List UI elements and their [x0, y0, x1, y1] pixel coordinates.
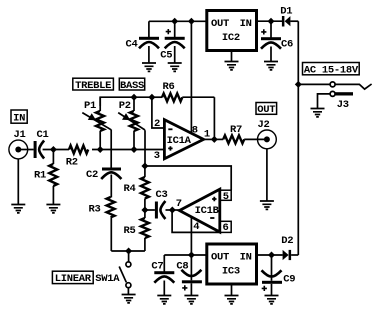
- svg-text:C2: C2: [86, 169, 98, 181]
- wire V- rail left: [164, 254, 207, 256]
- wire switch row: [111, 250, 145, 252]
- svg-text:6: 6: [222, 222, 228, 234]
- junction dot R6 left: [148, 94, 155, 101]
- ground (C8): [184, 296, 198, 304]
- wire V- rail right: [257, 254, 283, 256]
- svg-text:R5: R5: [123, 225, 135, 237]
- ground (C7): [157, 296, 171, 304]
- svg-text:BASS: BASS: [120, 80, 144, 92]
- diode D1: [280, 5, 292, 26]
- wire pin 6 feedback to pin 7: [172, 210, 220, 232]
- label TREBLE: [73, 78, 114, 92]
- svg-text:C6: C6: [281, 39, 293, 51]
- capacitor C3: [145, 189, 168, 219]
- resistor R7: [214, 124, 266, 143]
- junction dot IC1A output: [211, 136, 218, 143]
- connector J3: [298, 82, 371, 111]
- pot P1: [82, 97, 134, 149]
- svg-text:J3: J3: [337, 99, 349, 111]
- svg-text:C1: C1: [36, 129, 48, 141]
- ground (C5): [168, 63, 182, 71]
- svg-text:C9: C9: [283, 273, 295, 285]
- svg-text:R7: R7: [230, 124, 242, 136]
- regulator IC2: [207, 11, 257, 51]
- svg-text:R2: R2: [66, 157, 78, 169]
- capacitor C6: [261, 21, 293, 61]
- svg-text:OUT: OUT: [211, 251, 229, 263]
- ground (C6): [264, 62, 278, 70]
- svg-text:8: 8: [192, 125, 198, 137]
- resistor R2: [66, 146, 88, 169]
- svg-text:OUT: OUT: [257, 104, 275, 116]
- junction dot C9 top: [268, 252, 275, 259]
- svg-text:TREBLE: TREBLE: [75, 80, 111, 92]
- junction dot AC/J3: [295, 81, 302, 88]
- op-amp IC1A: [154, 118, 215, 162]
- op-amp IC1B: [176, 189, 220, 233]
- resistor R5: [123, 210, 148, 251]
- resistor R6: [152, 81, 215, 101]
- svg-text:LINEAR: LINEAR: [55, 273, 92, 285]
- svg-text:R4: R4: [123, 183, 135, 195]
- junction dot C5 top: [171, 18, 178, 25]
- svg-text:C3: C3: [155, 189, 167, 201]
- capacitor C9: [262, 255, 296, 296]
- resistor R1: [34, 150, 57, 205]
- junction dot P2 top: [131, 94, 138, 101]
- ground (IC3): [225, 284, 239, 304]
- ground (SW1A): [122, 295, 136, 303]
- capacitor C8: [176, 255, 202, 296]
- wire J1 to C1: [20, 149, 34, 151]
- ground (C4): [142, 63, 156, 71]
- wire C1 to R2: [43, 149, 69, 151]
- svg-text:IN: IN: [13, 112, 25, 124]
- junction dot P2 bottom: [131, 146, 138, 153]
- label IN: [11, 110, 27, 124]
- svg-text:C8: C8: [176, 261, 188, 273]
- resistor R3: [88, 197, 114, 251]
- resistor R4: [123, 166, 148, 210]
- svg-text:IC2: IC2: [222, 32, 240, 44]
- wire P1 wiper to C2: [110, 130, 112, 168]
- capacitor C2: [86, 168, 121, 198]
- label AC 15-18V: [303, 63, 360, 77]
- junction dot C6 top: [268, 18, 275, 25]
- svg-text:P1: P1: [84, 100, 96, 112]
- label LINEAR: [52, 271, 93, 285]
- svg-text:2: 2: [154, 118, 160, 130]
- wire P2 wiper to node A: [144, 130, 146, 166]
- wire node A to IC1B pin 5: [145, 166, 231, 190]
- wire to IC1A pin 2: [152, 97, 164, 128]
- ground (R1): [46, 205, 60, 213]
- diode D2: [281, 235, 293, 260]
- label OUT: [256, 103, 277, 117]
- svg-text:R3: R3: [88, 203, 100, 215]
- svg-text:IN: IN: [240, 18, 252, 30]
- capacitor C4: [125, 21, 159, 63]
- capacitor C1: [34, 129, 49, 158]
- svg-text:D1: D1: [280, 5, 292, 17]
- wire IC1B pin 4 to V-: [190, 217, 192, 255]
- junction dot R1 top: [50, 146, 57, 153]
- wire AC rail: [297, 21, 299, 255]
- wire D1 to AC rail: [290, 20, 298, 22]
- junction dot IC1B pin 7: [169, 207, 176, 214]
- ground (C9): [265, 296, 279, 304]
- wire input row to IC1A pin 3: [92, 149, 164, 151]
- junction dot node B: [141, 207, 148, 214]
- svg-text:J1: J1: [13, 129, 25, 141]
- pin 5 box IC1B: [220, 190, 231, 203]
- svg-text:P2: P2: [119, 100, 131, 112]
- svg-text:C5: C5: [160, 50, 172, 62]
- svg-text:R1: R1: [34, 169, 46, 181]
- ground (IC2): [225, 51, 239, 70]
- capacitor C5: [160, 21, 185, 63]
- svg-text:IC1A: IC1A: [167, 135, 192, 147]
- svg-text:IC1B: IC1B: [195, 205, 220, 217]
- svg-text:J2: J2: [257, 119, 269, 131]
- svg-text:IN: IN: [240, 251, 252, 263]
- junction dot P1 bottom: [97, 146, 104, 153]
- junction dot SW1A top: [125, 248, 132, 255]
- pin 6 box IC1B: [220, 221, 231, 234]
- pot P2: [118, 100, 145, 149]
- junction dot V+ branch: [188, 18, 195, 25]
- ground (J3): [311, 109, 325, 117]
- svg-text:4: 4: [193, 221, 199, 233]
- regulator IC3: [207, 244, 257, 284]
- wire P1 P2 tops to R6: [100, 97, 152, 106]
- wire R6 to pin 1: [213, 97, 215, 139]
- svg-text:7: 7: [176, 198, 182, 210]
- svg-text:5: 5: [223, 191, 229, 203]
- svg-text:C4: C4: [125, 39, 137, 51]
- wire C3 to pin 7: [166, 209, 180, 211]
- svg-text:SW1A: SW1A: [95, 273, 120, 285]
- capacitor C7: [151, 255, 174, 296]
- wire IC2 IN to D1: [257, 20, 283, 22]
- junction dot node A: [141, 163, 148, 170]
- svg-text:D2: D2: [281, 235, 293, 247]
- label BASS: [119, 78, 144, 92]
- wire D2 to AC rail: [291, 254, 298, 256]
- ground (J2): [260, 201, 274, 209]
- jack J1: [9, 129, 28, 204]
- ground (J1): [11, 205, 25, 213]
- svg-text:3: 3: [154, 150, 160, 162]
- wire positive rail from C4 to IC2: [149, 20, 207, 22]
- wire V+ to IC1A pin 8: [190, 21, 192, 133]
- svg-text:IC3: IC3: [222, 265, 240, 277]
- svg-text:AC 15-18V: AC 15-18V: [304, 65, 359, 77]
- jack J2: [257, 119, 276, 201]
- svg-text:C7: C7: [151, 261, 163, 273]
- svg-text:R6: R6: [162, 81, 174, 93]
- junction dot V- branch: [188, 252, 195, 259]
- switch SW1A: [95, 251, 131, 295]
- svg-text:OUT: OUT: [211, 18, 229, 30]
